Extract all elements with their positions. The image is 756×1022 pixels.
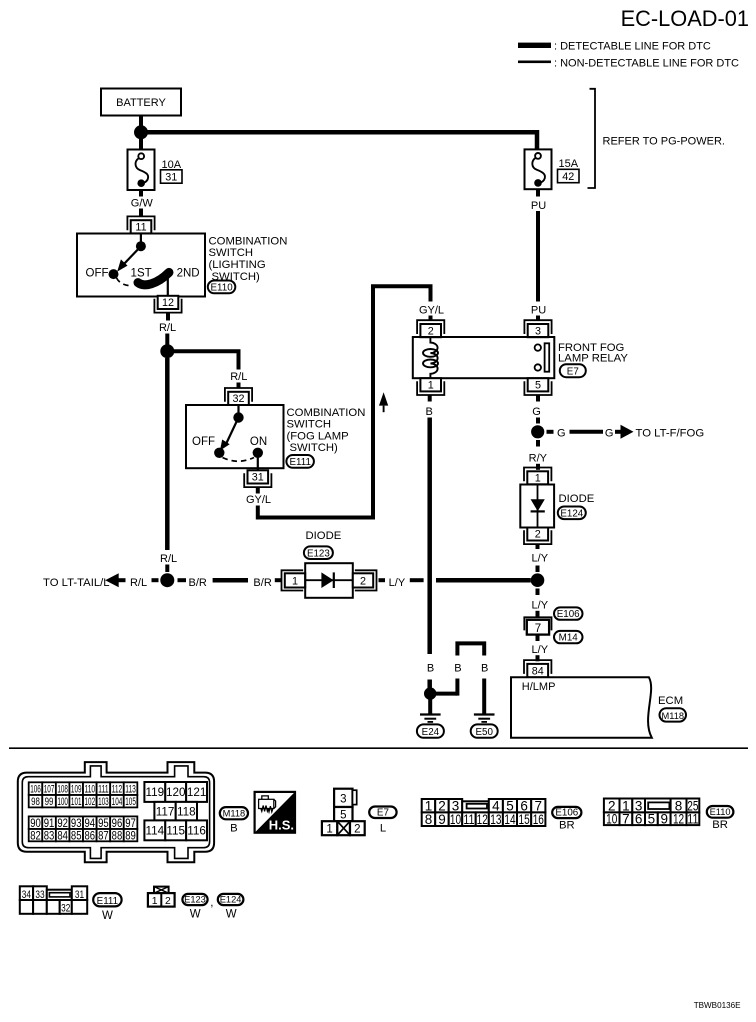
wire B/R [213,578,248,583]
label L/Y [532,552,549,564]
label L/Y [532,644,549,656]
label E111 oval [93,893,121,922]
wire R/L stub to pin 32 [237,383,241,389]
svg-text:99: 99 [45,796,54,808]
wire R/L to junction [165,334,169,346]
wire R/L long down [165,358,170,550]
svg-text:E110: E110 [710,807,731,817]
wire L/Y to node [436,578,531,583]
wire G to arrow [570,430,604,434]
svg-text:B: B [481,663,488,675]
svg-text:32: 32 [61,903,70,915]
svg-text:13: 13 [490,812,501,827]
svg-text:11: 11 [463,812,474,827]
svg-text:SWITCH: SWITCH [287,419,332,431]
label B/R [189,577,207,589]
svg-text:SWITCH: SWITCH [209,247,254,259]
connector pin 5 E7 [524,378,551,395]
svg-text:E106: E106 [555,808,578,819]
svg-text:R/L: R/L [160,553,177,565]
wire fuse to PU [536,189,540,197]
wire main feed to right fuse [141,132,537,150]
wire branch to E50 leg [430,679,457,696]
wire PU stub to pin 3 [536,316,540,322]
svg-text:E123: E123 [184,895,206,905]
svg-text:31: 31 [252,472,264,484]
svg-text:12: 12 [477,812,488,827]
svg-text:15: 15 [519,812,530,827]
label E111 oval [286,455,314,468]
svg-text:BR: BR [559,820,575,832]
label PU [531,200,546,212]
svg-text:100: 100 [57,796,68,808]
svg-text:1ST: 1ST [131,268,152,280]
label COMBINATION SWITCH (LIGHTING SWITCH) [209,235,288,282]
svg-text:E50: E50 [475,727,493,738]
wire node to R/Y [536,440,540,447]
wire dash right of pin 2 [379,578,386,582]
label GY/L below pin 31 [246,494,271,506]
node R/L-B/R junction [160,573,174,587]
wire dash right of node [178,578,187,582]
svg-text:97: 97 [125,817,136,830]
svg-text:B/R: B/R [253,577,271,589]
svg-text:GY/L: GY/L [419,305,444,317]
svg-text:103: 103 [98,796,109,808]
svg-text:H.S.: H.S. [269,818,294,833]
wire R/Y to diode pin 1 [536,464,540,470]
wire junction to left fuse [139,135,143,150]
label ON [250,436,267,448]
lighting switch pivot dot [136,241,146,251]
connector pin 12 E110 [154,296,181,313]
label E50 oval [471,724,498,738]
label DIODE [306,530,342,542]
svg-text:118: 118 [177,805,196,818]
svg-text:PU: PU [531,200,546,212]
label TBWB0136E [694,1001,741,1010]
svg-text:91: 91 [44,817,55,830]
fog switch ON dot [253,448,263,458]
svg-text:COMBINATION: COMBINATION [287,407,366,419]
svg-text:B: B [426,406,433,418]
svg-text:86: 86 [85,829,96,842]
svg-text:TBWB0136E: TBWB0136E [694,1001,741,1010]
label B below pin 1 [426,406,433,418]
label R/L below pin 12 [159,322,176,334]
wire dash [410,578,424,582]
svg-text:5: 5 [340,809,346,821]
wire pin 31 stub [256,488,260,494]
svg-text:M118: M118 [223,809,246,819]
wire G to node [536,418,540,424]
connector pin 32 E111 [225,388,252,405]
connector pin 2 E7 [417,320,444,337]
label E106 oval [554,607,583,620]
svg-text:L/Y: L/Y [532,599,549,611]
svg-text:9: 9 [660,811,668,826]
svg-text:89: 89 [125,829,136,842]
arrow TO LT-TAIL/L [105,573,125,587]
wire bridge over [457,643,484,655]
svg-text:32: 32 [232,393,244,405]
label OFF [192,436,215,448]
label B/R [253,577,271,589]
wire B long down [427,418,432,655]
label E123 E124 ovals [182,894,243,921]
lighting switch dashed link [117,278,131,286]
label L/Y [532,599,549,611]
svg-text:3: 3 [535,325,541,337]
label E123 oval [304,546,333,559]
node G junction [531,425,544,438]
svg-text:101: 101 [71,796,82,808]
combination fog lamp switch box E111 [186,405,284,468]
svg-text:117: 117 [156,805,175,818]
wire node to ground E24 [428,699,432,714]
label 1ST [131,268,152,280]
connector cavity view E110 [604,798,699,826]
svg-text:E7: E7 [377,807,389,818]
relay coil [423,337,438,378]
svg-text:R/L: R/L [230,371,247,383]
svg-text:1: 1 [535,473,541,485]
label GY/L above pin 2 [419,305,444,317]
svg-text:SWITCH): SWITCH) [290,442,339,454]
label G/W [131,197,154,209]
label PU above pin 3 [531,305,546,317]
svg-text:R/L: R/L [159,322,176,334]
label E106 oval [552,807,581,832]
connector pin 2 E123 [353,570,377,590]
connector cavity view E106 [422,799,546,828]
svg-text:113: 113 [125,784,136,796]
connector cavity view E7 [322,789,365,836]
svg-text:E123: E123 [307,548,330,559]
svg-text:114: 114 [146,825,165,838]
svg-text:10: 10 [606,811,617,826]
wire B to node [427,680,432,689]
front fog lamp relay box E7 [413,337,555,378]
wire pin 12 to R/L [166,313,170,321]
connector pin 11 E110 [127,216,154,233]
svg-text:B: B [427,663,434,675]
svg-text:84: 84 [57,829,68,842]
connector pin 3 E7 [524,320,551,337]
ground E50 [474,715,495,722]
svg-text:B: B [454,663,461,675]
node R/L junction [160,344,174,358]
separator line [9,747,748,749]
wire pin 7 to L/Y [536,635,540,641]
svg-text:105: 105 [125,796,136,808]
fog switch pivot wire [237,405,239,414]
label E110 oval [208,281,236,294]
wire battery to junction [139,116,143,129]
svg-text:110: 110 [85,784,96,796]
label E7 oval [560,364,586,377]
label 2ND [177,268,200,280]
wire branch to fog switch [167,351,238,369]
svg-text:OFF: OFF [86,268,109,280]
svg-text:104: 104 [112,796,123,808]
svg-text:TO LT-TAIL/L: TO LT-TAIL/L [43,577,110,589]
connector pin 2 E124 [524,528,551,545]
svg-text:2: 2 [428,325,434,337]
svg-text:1: 1 [292,575,298,587]
relay contact [535,343,550,371]
svg-text:E106: E106 [557,609,580,620]
wire 2ND to pin 12 [167,274,169,297]
wire dash to pin 1 [275,578,282,582]
label G [557,427,566,439]
svg-text:(LIGHTING: (LIGHTING [209,259,266,271]
svg-text:ON: ON [250,436,267,448]
svg-text:R/L: R/L [130,577,147,589]
svg-text:L/Y: L/Y [532,552,549,564]
label B right leg [481,663,488,675]
svg-text:EC-LOAD-01: EC-LOAD-01 [621,6,749,31]
svg-text:2: 2 [354,824,360,836]
H.S. mark [255,792,295,833]
label B left leg [454,663,461,675]
connector cavity view M118 [18,762,214,862]
arrow TO LT-F/FOG [615,425,634,439]
title EC-LOAD-01 [621,6,749,31]
svg-text:M14: M14 [559,633,579,644]
node L/Y junction [531,573,545,587]
label TO LT-F/FOG [636,427,705,439]
svg-text:2ND: 2ND [177,268,200,280]
wire fuse to G/W [139,190,143,197]
svg-text:L: L [380,822,386,834]
flow arrow up [379,392,388,412]
label E110 oval [707,806,734,831]
svg-text:31: 31 [165,172,177,184]
svg-text:E111: E111 [289,457,310,468]
svg-text:W: W [102,910,113,922]
battery [101,89,181,116]
svg-text:5: 5 [648,811,656,826]
svg-text:116: 116 [187,825,206,838]
bracket refer to pg-power [588,89,725,188]
svg-text:E124: E124 [220,895,242,905]
svg-text:106: 106 [30,784,41,796]
connector pin 84 M118 [524,660,551,677]
svg-text:102: 102 [85,796,96,808]
svg-text:95: 95 [98,817,109,830]
label R/Y [529,453,548,465]
svg-text:2: 2 [165,896,171,907]
wire L/Y to node [536,566,540,573]
svg-text:L/Y: L/Y [389,577,406,589]
svg-text:COMBINATION: COMBINATION [209,235,288,247]
svg-text:B: B [230,823,238,835]
label G [605,427,614,439]
wire right leg to ground E50 [482,679,486,714]
svg-text:DIODE: DIODE [559,493,595,505]
svg-text:G: G [605,427,614,439]
svg-text:119: 119 [146,786,165,799]
svg-text:1: 1 [326,824,332,836]
svg-text:G/W: G/W [131,197,154,209]
svg-text:6: 6 [635,811,643,826]
lighting switch pivot wire [140,234,142,244]
svg-text:1: 1 [428,380,434,392]
connector pin 31 E111 [244,470,271,487]
svg-text:3: 3 [340,794,346,806]
label R/L above node [160,553,177,565]
svg-text:W: W [190,909,201,921]
fog switch pivot dot [233,412,243,422]
fog switch dashed link [223,458,255,462]
svg-text:7: 7 [622,811,630,826]
svg-text:M118: M118 [662,711,685,721]
svg-text:90: 90 [30,817,41,830]
svg-text:2: 2 [535,529,541,541]
label M118 oval [660,708,687,721]
label H/LMP [522,681,556,693]
svg-text:LAMP RELAY: LAMP RELAY [558,352,628,364]
wire dash left of node [152,578,159,582]
svg-text:BATTERY: BATTERY [116,97,166,109]
svg-text:GY/L: GY/L [246,494,271,506]
svg-text:REFER TO PG-POWER.: REFER TO PG-POWER. [603,136,725,148]
svg-text:H/LMP: H/LMP [522,681,556,693]
label OFF [86,268,109,280]
label COMBINATION SWITCH (FOG LAMP SWITCH) [287,407,366,454]
svg-text:11: 11 [135,222,146,234]
svg-text:92: 92 [57,817,68,830]
svg-text:42: 42 [562,171,574,183]
connector pin 1 E124 [524,468,551,485]
svg-text:15A: 15A [559,158,579,170]
label 31 box [161,170,183,184]
svg-text:B/R: B/R [189,577,207,589]
wire G node dash right [547,430,554,434]
label L/Y [389,577,406,589]
label R/L [130,577,147,589]
label M118 oval [220,807,248,834]
connector pin 1 E123 [282,570,306,590]
label G below pin 5 [532,406,541,418]
wire pin 2 to L/Y [536,544,540,549]
svg-text:DIODE: DIODE [306,530,342,542]
label 42 box [558,169,580,183]
svg-text:TO LT-F/FOG: TO LT-F/FOG [636,427,705,439]
fuse 15A 42 [525,149,552,189]
label E24 oval [417,724,444,738]
svg-text:94: 94 [85,817,96,830]
label TO LT-TAIL/L [43,577,110,589]
fog switch arm arrow to OFF [220,418,239,451]
svg-text:2: 2 [360,575,366,587]
connector pin 7 E106/M14 [524,617,551,635]
svg-text:83: 83 [44,829,55,842]
ECM box [511,677,652,737]
svg-text:109: 109 [71,784,82,796]
svg-text:L/Y: L/Y [532,644,549,656]
svg-text:E111: E111 [97,896,118,907]
label B above E24 [427,663,434,675]
svg-text:9: 9 [438,812,446,827]
svg-text:ECM: ECM [658,695,683,707]
wire node down [536,589,540,596]
label FRONT FOG LAMP RELAY [558,342,628,365]
label DIODE [559,493,595,505]
svg-text:88: 88 [112,829,123,842]
connector cavity view E111 [20,886,87,914]
svg-text:12: 12 [162,297,174,309]
svg-text:96: 96 [112,817,123,830]
svg-text:12: 12 [673,811,684,826]
svg-text:14: 14 [504,812,516,827]
svg-text:E24: E24 [422,727,440,738]
wire pin 5 to G [536,395,540,402]
svg-text:8: 8 [425,812,433,827]
svg-text:: NON-DETECTABLE LINE FOR DTC: : NON-DETECTABLE LINE FOR DTC [554,58,739,70]
lighting switch arm arrow to OFF [117,246,141,271]
wire GY/L stub to pin 2 [429,316,433,322]
svg-text:84: 84 [532,666,544,678]
wire L/Y to pin 84 [536,655,540,661]
diode E124 [520,485,554,528]
svg-text:11: 11 [687,811,698,826]
svg-text:1: 1 [152,896,158,907]
svg-text:115: 115 [166,825,185,838]
svg-text:W: W [226,909,237,921]
connector pin 1 E7 [417,378,444,395]
svg-text:R/Y: R/Y [529,453,548,465]
svg-text:10: 10 [450,812,461,827]
legend detectable line [518,40,711,52]
svg-text:108: 108 [57,784,68,796]
lighting switch OFF dot [109,269,119,279]
svg-text:PU: PU [531,305,546,317]
wire R/L to node [165,565,169,573]
wire L/Y to pin 7 [536,611,540,617]
svg-text:85: 85 [71,829,82,842]
label R/L above pin 32 [230,371,247,383]
svg-text:: DETECTABLE LINE FOR DTC: : DETECTABLE LINE FOR DTC [554,40,711,52]
wire G/W to pin 11 [139,209,143,217]
svg-text:G: G [532,406,541,418]
svg-text:E7: E7 [567,367,579,378]
label E124 oval [558,507,586,520]
svg-text:E124: E124 [560,509,583,520]
wire GY/L route to relay pin 2 [258,286,431,517]
svg-text:111: 111 [98,784,109,796]
label 10A [162,159,182,171]
node battery junction [134,125,148,139]
svg-text:BR: BR [712,819,728,831]
svg-text:G: G [557,427,566,439]
label 15A [559,158,579,170]
svg-text:5: 5 [535,380,541,392]
svg-text:(FOG LAMP: (FOG LAMP [287,430,349,442]
svg-text:7: 7 [535,623,541,635]
node B junction [424,687,436,699]
combination lighting switch box E110 [77,234,205,297]
svg-text:16: 16 [533,812,544,827]
ground E24 [420,715,441,722]
label ECM [658,695,683,707]
svg-text:107: 107 [44,784,55,796]
svg-text:112: 112 [112,784,123,796]
svg-text:,: , [210,897,213,909]
svg-text:98: 98 [31,796,40,808]
svg-text:E110: E110 [211,283,234,294]
